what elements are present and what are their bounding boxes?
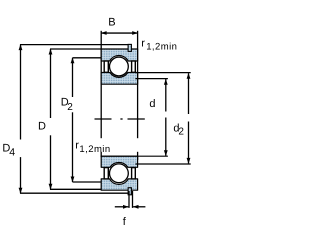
ball (top section) — [110, 57, 129, 76]
svg-text:D: D — [38, 121, 46, 133]
svg-text:d: d — [149, 98, 155, 110]
d2 dimension line — [188, 73, 190, 114]
bore line bottom with d extension — [101, 155, 168, 157]
wire: bottom-left face tick above bore line — [100, 152, 102, 157]
svg-text:1,2min: 1,2min — [146, 42, 177, 53]
wire: left bearing face / B left extension / bore edge vertical (top) — [100, 31, 102, 138]
outer ring (top section) — [101, 49, 137, 61]
svg-text:2: 2 — [178, 126, 184, 137]
D4 extension line bottom — [20, 192, 128, 194]
D extension line top — [50, 48, 102, 50]
B dimension line — [101, 32, 137, 34]
svg-text:2: 2 — [67, 102, 73, 113]
wire: right bearing face / B right extension / bore edge vertical (top) — [137, 31, 139, 138]
snap ring (bottom) — [128, 188, 131, 195]
svg-text:r: r — [141, 38, 145, 50]
d2 extension line top — [135, 72, 190, 74]
ball (bottom section) — [110, 164, 129, 183]
outer ring (bottom section) — [101, 179, 137, 190]
svg-text:1,2min: 1,2min — [79, 144, 110, 155]
D dimension line — [50, 49, 52, 118]
shield right (top section) — [132, 61, 136, 72]
f extension line right — [132, 191, 134, 208]
wire: bottom-right face tick above bore line — [137, 152, 139, 160]
f dimension line right tail with arrow — [133, 206, 145, 208]
D2 dimension line — [72, 58, 74, 97]
d2 extension line bottom — [135, 163, 190, 165]
inner ring (bottom section) — [101, 156, 137, 167]
svg-text:4: 4 — [9, 147, 15, 159]
svg-text:B: B — [108, 16, 115, 28]
f extension line left — [128, 191, 130, 208]
shield right (bottom section) — [132, 168, 136, 179]
inner ring (top section) — [101, 73, 137, 85]
D2 extension line bottom — [73, 181, 102, 183]
D4 dimension line — [20, 45, 22, 140]
f dimension line left tail with arrow — [115, 206, 129, 208]
D extension line bottom — [50, 188, 102, 190]
D2 extension line top — [73, 57, 102, 59]
d dimension line — [165, 79, 167, 112]
shield left (top section) — [104, 61, 108, 72]
centerline axis dash-dot — [95, 118, 112, 120]
shield left (bottom section) — [104, 168, 108, 179]
snap ring (top) — [128, 44, 131, 51]
d extension line top — [135, 78, 168, 80]
D4 extension line top — [20, 44, 128, 46]
